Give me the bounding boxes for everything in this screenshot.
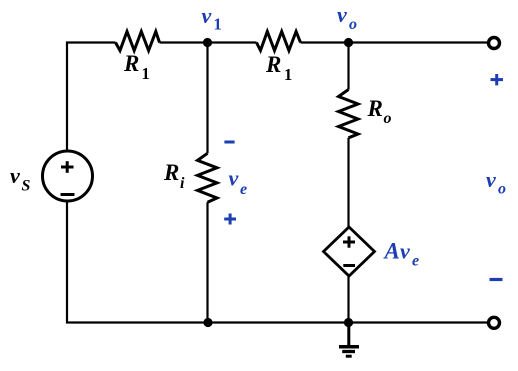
- wire source bottom to bottom-left corner: [67, 202, 488, 323]
- svg-text:R: R: [367, 96, 383, 121]
- voltage source vS: [43, 151, 93, 201]
- label v1: [202, 3, 222, 34]
- terminal top-right: [489, 38, 500, 49]
- resistor R1 right zigzag: [257, 32, 301, 51]
- label vo (right): [486, 167, 506, 198]
- vS minus sign: [61, 193, 75, 196]
- svg-text:R: R: [163, 160, 179, 185]
- ground stub: [347, 323, 350, 346]
- wire node vo to right terminal: [301, 41, 489, 43]
- minus sign ve (blue): [224, 141, 234, 144]
- wire Ro to dependent source: [347, 138, 349, 227]
- svg-text:1: 1: [142, 64, 150, 83]
- wire top-left segment: [67, 43, 116, 152]
- wire Ri branch top: [206, 43, 208, 154]
- minus sign output (blue): [490, 278, 503, 281]
- ground bar 2: [342, 350, 355, 353]
- ground bar 1: [339, 345, 359, 349]
- svg-text:v: v: [229, 166, 239, 191]
- label R1 (left): [123, 51, 150, 83]
- terminal bottom-right: [489, 317, 500, 328]
- label Ro: [367, 96, 392, 127]
- svg-text:S: S: [22, 178, 31, 195]
- svg-text:v: v: [486, 167, 496, 192]
- wire Ro branch top: [347, 43, 349, 90]
- label vS: [10, 163, 31, 195]
- label ve: [229, 166, 248, 199]
- svg-text:R: R: [123, 51, 139, 76]
- label Ri: [163, 160, 185, 192]
- resistor Ri zigzag: [198, 153, 218, 202]
- label Ave: [383, 239, 420, 270]
- svg-text:1: 1: [214, 15, 222, 34]
- dependent source Ave diamond: [324, 227, 375, 276]
- svg-text:e: e: [412, 253, 419, 270]
- resistor R1 left zigzag: [116, 32, 160, 51]
- Ave minus sign: [343, 264, 355, 267]
- svg-text:v: v: [400, 239, 410, 264]
- node dot bottom center: [344, 318, 353, 327]
- vS plus sign: [61, 161, 74, 173]
- svg-text:v: v: [202, 3, 212, 28]
- svg-text:R: R: [265, 52, 281, 77]
- ground bar 3: [346, 355, 352, 358]
- resistor Ro zigzag: [339, 90, 359, 138]
- svg-text:v: v: [10, 163, 20, 188]
- node v1 dot: [203, 38, 212, 47]
- plus sign output (blue): [491, 74, 504, 85]
- wire Ri branch bottom: [206, 202, 208, 322]
- node dot bottom Ri: [203, 318, 212, 327]
- svg-text:1: 1: [284, 65, 292, 84]
- node vo dot: [344, 38, 353, 47]
- svg-text:o: o: [384, 110, 392, 127]
- svg-text:v: v: [337, 2, 347, 27]
- svg-text:e: e: [240, 181, 247, 198]
- label R1 (right): [265, 52, 292, 84]
- svg-text:i: i: [180, 175, 185, 192]
- label vo (top): [337, 2, 357, 33]
- svg-text:o: o: [498, 181, 506, 198]
- wire between R1 and node v1: [160, 41, 257, 43]
- svg-text:A: A: [383, 239, 400, 264]
- svg-text:o: o: [349, 16, 357, 33]
- plus sign ve (blue): [224, 214, 236, 225]
- wire dependent source to bottom node: [347, 276, 349, 323]
- Ave plus sign: [343, 236, 355, 247]
